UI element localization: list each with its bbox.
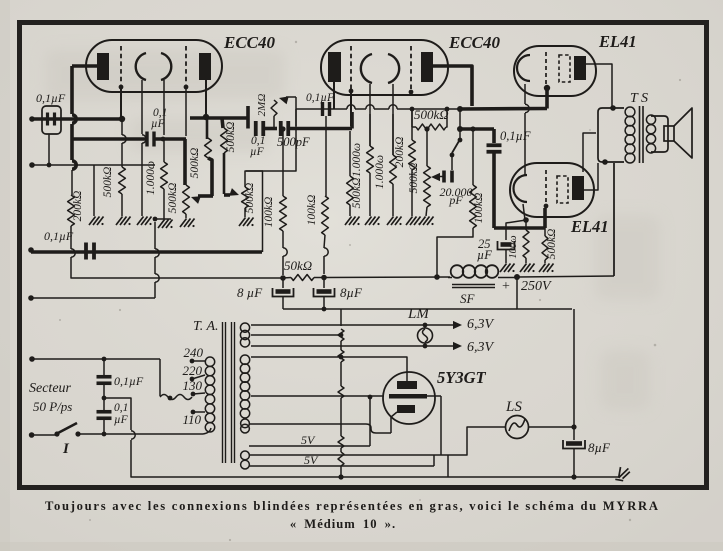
label +250V	[502, 279, 552, 294]
node bias R14	[445, 107, 450, 112]
tube V5 plate 2	[397, 405, 415, 413]
wire C1 shield drop	[48, 134, 50, 165]
svg-text:500kΩ: 500kΩ	[167, 183, 179, 214]
wire cathode V3 drop	[524, 84, 526, 104]
svg-text:500kΩ: 500kΩ	[351, 178, 363, 209]
label 6,3V b	[467, 340, 495, 355]
hop bias k1	[366, 105, 374, 109]
ground P1	[180, 219, 195, 228]
wire R2 gnd	[121, 194, 123, 216]
svg-text:LS: LS	[505, 399, 522, 415]
choke SF	[448, 265, 517, 278]
wire B+ rail left	[88, 277, 283, 279]
svg-text:ECC40: ECC40	[448, 33, 501, 52]
wire C2 out	[154, 137, 186, 141]
svg-text:« Médium 10 ».: « Médium 10 ».	[290, 517, 396, 531]
svg-text:110: 110	[182, 412, 201, 427]
node mains B cap	[102, 432, 107, 437]
label C7 8uF	[340, 285, 363, 300]
wire filament left ext	[369, 397, 371, 446]
tube V1 ECC40 envelope	[86, 40, 222, 92]
svg-text:0,1µF: 0,1µF	[36, 91, 66, 105]
node cathode junction	[161, 137, 166, 142]
label C4 0,1uF	[114, 374, 144, 388]
tube V5 label 5Y3GT	[437, 368, 486, 387]
label SF	[460, 291, 476, 306]
node gnd tap	[153, 217, 158, 222]
TA core	[223, 322, 235, 463]
wire bias line left	[246, 109, 296, 171]
svg-text:1.000ω: 1.000ω	[374, 155, 386, 189]
wire cathode V1b	[163, 80, 165, 135]
tube V5 plate 1	[397, 381, 417, 389]
ground R2	[116, 217, 131, 226]
label C12 0,1uF	[306, 92, 335, 104]
wire grid leak drop	[121, 119, 123, 135]
svg-text:200kΩ: 200kΩ	[72, 191, 84, 222]
label R6 50kohm	[284, 258, 312, 273]
node plate V1b	[203, 114, 209, 120]
capacitor C6 8uF	[273, 288, 294, 297]
resistor R1 200k	[68, 195, 75, 226]
wire LM top	[423, 323, 428, 328]
TA sec 6.3V loops	[240, 323, 249, 347]
wire V2 k1	[366, 84, 374, 146]
wire V2 k2	[389, 84, 397, 155]
TA primary loops	[205, 357, 214, 432]
hop pu over x283	[283, 248, 287, 256]
node gnd rail bus	[338, 474, 343, 479]
capacitor C3 0,1uF	[86, 243, 94, 260]
TA bus top corner	[283, 309, 517, 326]
TA bus seg	[340, 341, 342, 350]
wire P2 gnd	[244, 208, 246, 217]
TA bus seg3	[340, 398, 342, 436]
node cap mid	[102, 396, 107, 401]
wire LS out	[529, 426, 575, 428]
switch I terminal	[29, 432, 35, 438]
label R14 500kohm	[414, 107, 449, 122]
tube V1 grid g1 pin	[119, 85, 124, 90]
wire plate bus	[190, 116, 248, 120]
ground R16	[539, 264, 554, 273]
wire C15 gnd	[505, 250, 507, 263]
svg-text:100kΩ: 100kΩ	[473, 193, 485, 224]
node TS bottom	[602, 159, 608, 165]
wire R4 top	[206, 117, 209, 139]
wire LM bottom	[423, 343, 428, 348]
wire bias line	[296, 105, 460, 109]
wire mains B	[78, 433, 203, 435]
node HT drop LS	[571, 424, 576, 429]
wire switch to C13	[451, 157, 453, 170]
label P1 500kohm	[167, 183, 179, 214]
svg-text:500pF: 500pF	[277, 135, 310, 149]
label TS	[630, 91, 648, 106]
wire 5V2 gnd drop	[447, 455, 449, 477]
TA bus zig 1	[338, 329, 344, 341]
svg-text:500kΩ: 500kΩ	[225, 122, 237, 153]
tube V4 cathode arc	[514, 175, 528, 202]
switch S2 lever	[452, 141, 459, 153]
label C15 25uF	[477, 237, 492, 262]
label C10 0,1uF	[250, 135, 265, 158]
node bias switch	[457, 106, 463, 112]
wire R7 bottom	[273, 116, 275, 128]
tube V2 grid g1 pin	[349, 89, 354, 94]
resistor R15 100ohm	[523, 220, 529, 263]
TA bus seg4	[340, 448, 342, 452]
label C14 0,1uF	[500, 129, 531, 143]
label R9 100kohm	[306, 195, 318, 226]
resistor R17 100k	[437, 131, 476, 275]
wire V2 plate1 lead	[333, 82, 335, 109]
ground R9	[419, 217, 434, 226]
label R13 200kohm	[394, 137, 406, 168]
tube V4 plate	[572, 176, 584, 200]
node rail R6	[280, 275, 286, 281]
label R7 2Mohm	[256, 94, 268, 117]
capacitor C4 0,1uF	[97, 377, 112, 384]
svg-text:50kΩ: 50kΩ	[284, 258, 312, 273]
capacitor C1 bars	[48, 113, 55, 126]
svg-text:500kΩ: 500kΩ	[189, 148, 201, 179]
resistor R5 500k	[221, 128, 228, 153]
wire cathode V3 drop2	[524, 113, 526, 176]
wire rail mid	[283, 277, 324, 280]
wire LS feed	[441, 427, 505, 455]
wire R14 right	[446, 109, 447, 127]
wire gnd bar	[153, 218, 171, 220]
P2 wiper arrow	[224, 188, 239, 196]
svg-text:5V: 5V	[304, 453, 319, 467]
svg-text:EL41: EL41	[570, 217, 609, 236]
capacitor C9 8uF	[563, 440, 585, 449]
tube V3 cathode arc	[517, 55, 530, 81]
wire mains A	[32, 358, 160, 360]
svg-text:2MΩ: 2MΩ	[256, 94, 268, 117]
wire gnd return riser	[155, 222, 159, 298]
svg-text:5Y3GT: 5Y3GT	[437, 368, 486, 387]
wire switch drop	[459, 109, 461, 139]
label LS	[505, 399, 522, 415]
svg-text:SF: SF	[460, 291, 476, 306]
svg-text:0,1: 0,1	[114, 402, 128, 414]
tube V2 cathode k2 arc	[388, 54, 399, 83]
R7 wiper arrow	[279, 96, 296, 104]
tube V1 cathode k1 arc	[136, 53, 146, 80]
TA sec 5V1 loops	[241, 419, 250, 433]
label R2 500kohm	[102, 167, 114, 198]
node mains A cap	[102, 357, 107, 362]
ground C15	[500, 264, 515, 273]
svg-text:240: 240	[184, 345, 204, 360]
wire V2 plate2 lead	[432, 66, 472, 106]
svg-text:Secteur: Secteur	[29, 381, 72, 396]
svg-text:µF: µF	[151, 118, 166, 130]
svg-text:1.000ω: 1.000ω	[145, 161, 157, 195]
tube V4 grid pin	[544, 204, 549, 209]
node row R8	[280, 126, 285, 131]
wire C7 top	[323, 280, 325, 288]
wire 25uF branch	[506, 220, 526, 240]
TA bus zig 2	[338, 350, 344, 362]
switch S2 contact b	[450, 153, 455, 158]
wire thick row start	[246, 106, 250, 129]
wire 6.3V line 1	[251, 321, 462, 329]
wire row2 drop	[492, 129, 496, 143]
tap 240	[184, 345, 206, 363]
tube V1 plate a1	[97, 53, 109, 80]
tube V1 cathode k2 arc	[161, 53, 171, 80]
capacitor C1 0,1uF box	[42, 106, 61, 134]
label 5V b	[304, 453, 319, 467]
tube V4 label EL41	[570, 217, 609, 236]
svg-text:8 µF: 8 µF	[237, 285, 263, 300]
tube V2 plate a2	[421, 52, 433, 82]
wire mains B to winding	[203, 428, 211, 434]
label C1 0,1uF	[36, 91, 66, 105]
hop plate wire over input1	[72, 115, 76, 123]
tube V2 grid g2 pin	[409, 90, 414, 95]
tube V2 cathode k1 arc	[361, 54, 372, 83]
label R4 500kohm	[189, 148, 201, 179]
tube V1 plate a2	[199, 53, 211, 80]
speaker HP	[664, 108, 692, 158]
wire thick row 2	[460, 127, 494, 131]
svg-text:100ω: 100ω	[508, 235, 519, 258]
wire C7 bottom	[322, 297, 327, 311]
svg-text:500kΩ: 500kΩ	[546, 229, 558, 260]
wire R5 down	[223, 153, 226, 194]
capacitor C15 25uF	[498, 241, 515, 250]
node rail R17	[434, 274, 440, 280]
tube V2 ECC40 envelope	[321, 40, 448, 95]
svg-text:0,1µF: 0,1µF	[44, 229, 74, 243]
label R5 500kohm	[225, 122, 237, 153]
wire filament right	[427, 396, 441, 455]
wire input2 gnd drop	[93, 165, 95, 216]
TS secondary bracket	[651, 116, 668, 152]
hop cathode V1a	[142, 135, 146, 143]
wire C14 down	[492, 153, 496, 228]
node V3 grid	[544, 85, 550, 91]
label C11 500pF	[277, 135, 310, 149]
hop cathode V3	[525, 104, 529, 112]
wire B+ drop	[517, 277, 572, 309]
node grid V1a	[119, 116, 125, 122]
label P3 500kohm	[408, 163, 420, 194]
ground P2	[239, 218, 254, 227]
hop grid leak	[122, 135, 126, 143]
potentiometer P1 500k	[183, 185, 190, 214]
node row P3	[424, 126, 429, 131]
wire grid leak drop2	[121, 143, 123, 167]
svg-text:ECC40: ECC40	[223, 33, 276, 52]
node TS top	[610, 105, 616, 111]
wire R9 gnd link	[323, 274, 325, 278]
node shield/input2	[47, 163, 52, 168]
svg-text:6,3V: 6,3V	[467, 317, 495, 332]
TA sec HV loops	[240, 355, 249, 418]
svg-text:500kΩ: 500kΩ	[408, 163, 420, 194]
tube V2 label ECC40	[448, 33, 501, 52]
label C3 0,1uF	[44, 229, 74, 243]
lamp LS	[506, 416, 529, 439]
label LM	[407, 306, 430, 322]
wire C13 to P3	[431, 173, 444, 181]
tube V4 grid	[545, 170, 547, 204]
svg-text:µF: µF	[477, 248, 492, 262]
TA bus zig 5	[338, 452, 344, 466]
tube V2 plate a1	[328, 52, 341, 82]
TA bus seg2	[340, 362, 342, 386]
label C9 8uF	[588, 440, 611, 455]
wire selector squiggle	[160, 395, 192, 400]
svg-text:I: I	[62, 441, 70, 457]
wire corner to R5	[222, 118, 223, 128]
wire grid V1b drop	[185, 88, 187, 136]
wire HV ct / filament	[251, 395, 384, 397]
label 5V a	[301, 433, 316, 447]
wire HT drop	[573, 309, 575, 440]
wire TS B+ drop	[613, 163, 615, 276]
svg-text:0,1µF: 0,1µF	[306, 92, 335, 104]
label R12 1.000w	[374, 155, 386, 189]
node bus HV	[339, 355, 344, 360]
wire V2 grid1 drop	[350, 93, 352, 126]
resistor R11 1000	[367, 114, 374, 216]
wire cap mid to gnd rail	[131, 440, 141, 477]
wire R1 rail corner	[71, 257, 88, 278]
wire gnd return	[31, 297, 155, 299]
wire C6 bottom	[282, 297, 284, 309]
choke SF core	[452, 285, 495, 288]
tube V3 grid	[545, 52, 547, 84]
svg-text:100kΩ: 100kΩ	[306, 195, 318, 226]
wire plate2 drop	[391, 412, 397, 433]
resistor R12 1000	[390, 114, 397, 216]
label R8 100kohm	[263, 197, 275, 228]
node bus 6.3mid	[339, 333, 344, 338]
capacitor C10 0,1uF	[256, 121, 264, 136]
svg-text:6,3V: 6,3V	[467, 340, 495, 355]
wire rail right	[324, 276, 450, 279]
wire 5V2 bottom	[249, 455, 434, 466]
wire wiper riser	[208, 158, 212, 196]
label R3 1.000w	[145, 161, 157, 195]
wire R3 gnd	[163, 189, 165, 219]
resistor R10 500k	[347, 131, 354, 216]
paper speckle	[59, 41, 681, 541]
potentiometer P2 500k	[242, 187, 249, 208]
capacitor C7 8uF	[314, 288, 335, 297]
ground R10	[345, 217, 360, 226]
input terminal J3	[28, 247, 34, 253]
wire input2	[32, 164, 155, 166]
node drive sw	[457, 126, 463, 132]
TA bus seg5	[340, 466, 342, 477]
ground R11	[365, 217, 380, 226]
wire 6.3V mid	[251, 334, 341, 336]
label R1 200kohm	[72, 191, 84, 222]
svg-text:pF: pF	[448, 193, 463, 207]
wire 6.3V line 2	[251, 342, 462, 350]
tap 130	[183, 378, 206, 396]
TS secondary loops	[646, 115, 655, 153]
wire input1 shielded	[32, 117, 122, 121]
wire thick row up	[350, 112, 354, 129]
label R10 500kohm	[351, 178, 363, 209]
wire cap mid out	[104, 398, 131, 430]
tube V5 5Y3GT envelope	[383, 372, 435, 424]
resistor R8 100k	[280, 131, 287, 248]
wire B+ to TS	[613, 163, 615, 276]
capacitor C5 0,1uF	[97, 412, 112, 419]
resistor R9 100k	[322, 116, 329, 274]
switch I lever	[58, 423, 77, 433]
caption line2	[290, 517, 396, 531]
wire P2 top drop	[262, 171, 264, 252]
TA bus zig 4	[338, 436, 344, 448]
ground cathode V1a	[137, 217, 152, 226]
wire R7 wiper drop	[295, 97, 297, 126]
TA bus zig 3	[338, 386, 344, 398]
lamp LM	[418, 328, 433, 343]
ground R13	[406, 217, 421, 226]
capacitor C14 0,1uF	[487, 145, 502, 152]
svg-text:250V: 250V	[521, 279, 552, 294]
svg-text:50 P/ps: 50 P/ps	[33, 399, 72, 414]
wire pu shielded	[31, 250, 262, 254]
input terminal mains A	[29, 356, 35, 362]
tube V1 label ECC40	[223, 33, 276, 52]
wire plate V1a lead	[72, 66, 97, 114]
svg-text:220: 220	[183, 363, 203, 378]
wire R1 to rail	[70, 226, 72, 249]
svg-text:500kΩ: 500kΩ	[102, 167, 114, 198]
label C5 0,1uF	[114, 402, 129, 426]
label R17 100kohm	[473, 193, 485, 224]
tube V1 grid g2	[185, 46, 187, 85]
svg-text:LM: LM	[407, 306, 430, 322]
ground R3	[158, 220, 173, 229]
svg-text:1.000ω: 1.000ω	[351, 143, 363, 177]
svg-text:8µF: 8µF	[340, 285, 363, 300]
resistor R3 1000ohm	[161, 162, 168, 189]
resistor R2 500k	[119, 167, 126, 194]
wire cathode V1b drop	[163, 139, 165, 162]
wire 5V1 top	[249, 424, 391, 433]
wire P1 gnd	[185, 214, 187, 218]
svg-text:EL41: EL41	[598, 32, 637, 51]
svg-text:µF: µF	[250, 146, 265, 158]
node selector	[168, 396, 173, 401]
hop plate wire over input2	[72, 161, 76, 169]
svg-text:130: 130	[183, 378, 203, 393]
svg-text:8µF: 8µF	[588, 440, 611, 455]
wire R14 left	[412, 109, 416, 127]
hop capmid over mains B	[131, 431, 135, 439]
tube V3 EL41 envelope	[514, 46, 596, 96]
wire V4 plate to TS	[584, 163, 598, 190]
wire row mid	[264, 127, 277, 131]
label switch I	[62, 441, 70, 457]
resistor R16 500k	[542, 228, 548, 263]
node rail C6	[321, 275, 327, 281]
resistor R14 500k horiz	[416, 124, 446, 130]
switch S2 contact a	[458, 138, 463, 143]
